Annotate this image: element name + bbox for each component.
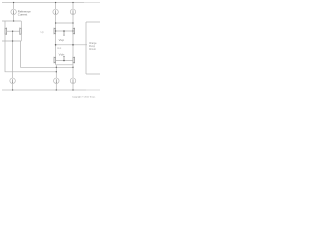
- wire I2 to switch Q1: [55, 15, 57, 28]
- wire gate tie down to mirror output node: [12, 31, 14, 41]
- wire I3 to switch Q2: [72, 15, 74, 28]
- wire gate bus of M1 M2: [7, 30, 20, 32]
- wire lead from VDD to reference current source I1: [13, 3, 15, 10]
- wire right column down from M2 then right to I6: [21, 41, 74, 67]
- node A dot: [13, 20, 14, 21]
- current sink I4 bottom left: [10, 78, 16, 84]
- wire I1 output down to node A: [13, 15, 15, 21]
- device lead accents: [5, 28, 73, 64]
- transistor Q4 lower switch right: [72, 57, 74, 67]
- wire lead VDD to current source I2: [55, 3, 57, 10]
- wire rung between I2 and I3 outputs: [56, 22, 73, 24]
- current source I1 (reference current): [11, 9, 16, 14]
- current source I2 top middle left: [53, 9, 58, 14]
- current sink I5 bottom middle left: [54, 78, 60, 84]
- wire I6 to ground: [72, 84, 74, 90]
- transistor Q2 upper switch right: [72, 28, 74, 44]
- svg-text:Iout: Iout: [57, 47, 61, 50]
- wire node B horizontal y=41: [2, 40, 21, 42]
- top rung dots: [55, 22, 56, 23]
- svg-text:Up: Up: [41, 30, 45, 34]
- ground rail dots: [12, 89, 13, 90]
- svg-text:Charge: Charge: [89, 42, 97, 45]
- junction dots top rail: [13, 2, 14, 3]
- arrowheads current sources: [13, 13, 14, 14]
- wire rung between Q3 Q4: [56, 60, 73, 62]
- transistor Q1 upper switch left: [55, 28, 57, 45]
- wire mirror tap down to current sink I4: [12, 41, 14, 78]
- transistor Q3 lower switch left: [55, 45, 57, 65]
- wire I4 to ground rail: [12, 84, 14, 90]
- wire output node y=44 to filter box: [56, 44, 87, 46]
- svg-text:Vup: Vup: [59, 38, 65, 42]
- svg-text:Vdn: Vdn: [59, 52, 65, 56]
- wire left column down from M1 then right to I5: [5, 41, 56, 72]
- wire bottom ground rail: [2, 89, 86, 91]
- current source I3 top middle right: [70, 9, 75, 14]
- wire lead VDD to current source I3: [72, 3, 74, 10]
- wire Q2 drain to Q4: [72, 45, 74, 57]
- DOWN rung dot: [63, 60, 65, 62]
- UP rung dots: [55, 30, 56, 31]
- transistor M2 left mirror right device: [20, 21, 22, 41]
- svg-text:Current: Current: [18, 13, 28, 17]
- node B dot: [12, 40, 13, 41]
- svg-text:Circuit: Circuit: [89, 48, 96, 51]
- wire I5 to ground: [55, 84, 57, 90]
- wire source tie below Q3 Q4: [56, 64, 73, 66]
- svg-text:Pump: Pump: [89, 46, 96, 48]
- wire rung between Q1 Q2: [56, 30, 73, 32]
- wire node A horizontal y=21: [2, 20, 21, 22]
- current sink I6 bottom middle right: [70, 78, 76, 84]
- wire VDD top rail: [2, 2, 84, 4]
- gate bus dot left mirror: [12, 31, 13, 32]
- wire UP control stub: [63, 31, 65, 35]
- wire lead to current sink I6: [72, 67, 74, 78]
- sink node dots: [56, 67, 57, 68]
- loop filter box: [86, 21, 101, 23]
- output node dots: [55, 44, 57, 46]
- svg-text:Copyright © 2011 Texas: Copyright © 2011 Texas: [72, 96, 96, 99]
- transistor M1 left mirror left device: [4, 21, 6, 41]
- wire DOWN control stub: [63, 56, 65, 60]
- wire lead to current sink I5: [55, 65, 57, 78]
